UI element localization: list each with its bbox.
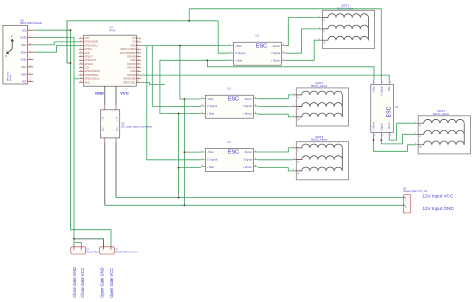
pin left 1 3.3V of U7 [79,37,84,39]
svg-text:SDA: SDA [21,50,27,54]
svg-text:2: 2 [137,37,138,39]
pin left 7 GPIO4 of U7 [79,48,84,50]
pin 2 O Signal of U2 [229,52,233,54]
coil winding V of MOT1 [322,25,368,29]
pin bottom 5 Signal of U1 [380,132,382,137]
pin 2 V of MOT1 [319,28,323,30]
header H1 Close Gate (Header Male 2.54_1x2) [71,247,109,254]
svg-text:3.3V: 3.3V [84,37,89,40]
svg-text:GPIO22: GPIO22 [84,63,93,66]
svg-text:U4: U4 [227,140,231,144]
svg-text:GPIO25: GPIO25 [127,74,136,77]
svg-text:GPIO4: GPIO4 [84,48,92,51]
svg-text:O Signal: O Signal [207,104,218,108]
pin 1 U of MOT3 [293,147,297,149]
svg-text:U: U [297,96,299,99]
pin 3 W of MOT1 [319,39,323,41]
wire U4 motor- to MOT3 pin1 [258,148,293,152]
svg-text:8: 8 [137,48,138,50]
IC U7 Pi-IO GPIO header [79,26,141,87]
svg-text:U: U [297,149,299,152]
svg-text:GPIO3/SCL1: GPIO3/SCL1 [84,44,99,47]
svg-text:GPIO8/CE0: GPIO8/CE0 [123,78,136,81]
svg-text:GPIO23: GPIO23 [127,63,136,66]
junction U3 +Batt [178,113,180,115]
svg-text:24: 24 [137,77,139,79]
pin right 18 GPIO24 of U7 [136,67,141,69]
svg-text:O Signal: O Signal [207,158,218,162]
svg-text:5: 5 [80,44,81,46]
pin 2 O Signal of U4 [201,158,205,160]
svg-text:VCC: VCC [120,91,129,96]
svg-text:BLDC_Motor: BLDC_Motor [311,84,327,88]
svg-text:- Motor: - Motor [243,150,252,154]
svg-text:GND: GND [20,36,26,40]
wire Pi GND left stub [74,78,79,80]
star point join of MOT2 [341,95,343,117]
svg-text:19: 19 [80,70,82,72]
svg-text:+ Motor: + Motor [372,122,376,131]
pin right 4 5V of U7 [136,41,141,43]
pin right 6 GND of U7 [136,45,141,47]
pin left 15 GPIO22 of U7 [79,63,84,65]
pin 5 I Signal of U3 [253,105,257,107]
pin 6 + Motor of U3 [253,112,257,114]
wire U3 signal from Pi [152,46,201,107]
pin 3 W of MOT4 [415,144,419,146]
op-amp substitute: ESC U2 [229,34,286,66]
pin 3 + Batt of U4 [201,166,205,168]
svg-text:10: 10 [137,52,139,54]
junction upper rail [188,20,190,22]
svg-text:GPIO27/17: GPIO27/17 [84,59,97,62]
pin 1 U of MOT2 [293,94,297,96]
svg-text:I Signal: I Signal [243,158,252,162]
svg-text:15: 15 [80,63,82,65]
svg-text:ESC: ESC [228,96,239,102]
svg-text:+ Motor: + Motor [243,165,252,169]
coil winding U of MOT1 [322,14,368,18]
wire MPU +5V to VCC bus [33,29,70,31]
pin 2 V of MOT3 [293,159,297,161]
svg-text:+5V: +5V [21,28,26,32]
svg-text:GPIO17: GPIO17 [84,55,93,58]
pin 3 SCL of U8 [28,44,34,46]
pin 2 V of MOT2 [293,106,297,108]
svg-text:- Motor: - Motor [387,122,391,130]
wire MPU GND to GND bus [33,37,74,39]
wire U1 pin4 to MOT4 pin3 [374,137,415,151]
svg-text:ESC: ESC [387,106,393,117]
svg-text:SCL: SCL [21,43,27,47]
svg-text:GND: GND [130,70,136,73]
wire buck 5V+ to Pi VCC label [115,86,117,105]
svg-text:3: 3 [80,41,81,43]
svg-text:Open Gate GND: Open Gate GND [99,267,104,297]
wire H1 pin2 branch [74,243,82,247]
junction rail A [178,197,180,199]
svg-text:AD0: AD0 [21,72,27,76]
wire rail B 12V GND [105,204,404,206]
pin right 8 GPIO14/TXD0 of U7 [136,48,141,50]
wire U2 signal to MOT1 pin2 [286,29,319,53]
svg-text:Close Gate GND: Close Gate GND [72,267,77,298]
junction U2 +Batt [207,59,209,61]
pin 2 O Signal of U3 [201,105,205,107]
svg-text:9: 9 [80,52,81,54]
svg-text:- 5V: - 5V [103,116,105,121]
pin left 11 GPIO17 of U7 [79,56,84,58]
svg-text:12V +: 12V + [116,125,118,131]
svg-text:ESC: ESC [228,150,239,156]
pin left 21 GPIO9/MISO of U7 [79,74,84,76]
wire upper signal rail [189,8,381,10]
svg-text:BLDC_Motor: BLDC_Motor [433,112,449,116]
wire rail B drop [104,142,106,205]
svg-text:16: 16 [137,63,139,65]
pin right 24 GPIO8/CE0 of U7 [136,78,141,80]
motor MOT2 BLDC_Motor [293,81,349,126]
svg-text:GPIO11/SCLK: GPIO11/SCLK [84,78,100,81]
star point join of MOT1 [367,18,369,41]
svg-text:Close Gate VCC: Close Gate VCC [80,267,85,297]
wire Pi GPIO25 to U1 signal pin3 [141,75,389,80]
buck converter U5 DC_step_down_converter [101,105,153,142]
wire rail A 12V VCC [116,197,403,199]
wire -Batt vertical long [183,99,185,205]
junction rail B [184,204,186,206]
pin 6 XCL of U8 [28,66,34,68]
svg-text:11: 11 [80,55,82,57]
wire U4 motor+ to MOT3 pin3 [258,168,293,171]
pin top 3 - Batt of U1 [388,80,390,85]
pin 3 W of MOT3 [293,170,297,172]
svg-text:Y: Y [11,34,13,38]
wire upper rail drop to top rail [188,9,190,21]
svg-text:- Batt: - Batt [387,86,391,92]
pin 3 12V- of U5 [104,138,106,142]
pin 1 - Batt of U2 [229,45,233,47]
op-amp substitute: ESC U4 [201,140,258,172]
pin 5 I Signal of U2 [282,52,286,54]
pin 5 I Signal of U4 [253,158,257,160]
svg-text:GPIO7/CE1: GPIO7/CE1 [123,81,136,84]
wire U1 pin5 to MOT4 pin2 [381,134,414,144]
wire GND bus vertical [73,38,75,239]
svg-text:18: 18 [137,66,139,68]
wire U2 +Batt rail [160,59,229,61]
pin 1 - Batt of U3 [201,98,205,100]
svg-text:14: 14 [137,59,139,61]
wire U2 motor+ to MOT1 pin3 [286,40,319,60]
pin 4 - Motor of U3 [253,98,257,100]
wire buck 5V- to Pi GND label [104,86,106,105]
svg-text:ESC: ESC [256,43,267,49]
svg-text:25: 25 [80,81,82,83]
svg-text:- Batt: - Batt [207,150,214,154]
pin 2 V of MOT4 [415,133,419,135]
pin top 2 0 Signal of U1 [380,80,382,85]
pin 4 SDA of U8 [28,51,34,53]
pin 6 + Motor of U2 [282,59,286,61]
pin 1 - Batt of U4 [201,151,205,153]
wire U2 signal drop [218,21,229,53]
svg-text:+ Batt: + Batt [372,86,376,93]
pin right 12 GPIO18 of U7 [136,56,141,58]
svg-text:DC_step_down_converter: DC_step_down_converter [121,124,152,128]
header H2 Open Gate (Header Male 2.54_1x2) [100,247,139,254]
svg-text:Signal: Signal [379,123,383,131]
svg-text:17: 17 [80,66,82,68]
pin bottom 6 - Motor of U1 [388,132,390,137]
svg-text:GND: GND [130,59,136,62]
svg-text:13: 13 [80,59,82,61]
svg-text:22: 22 [137,74,139,76]
svg-text:GPIO18: GPIO18 [127,55,136,58]
pin 4 12V+ of U5 [115,138,117,142]
svg-text:Module: Module [10,74,12,81]
svg-text:4: 4 [137,41,138,43]
pin left 23 GPIO11/SCLK of U7 [79,78,84,80]
svg-text:+ 5V: + 5V [116,116,118,121]
wire rail A drop [115,142,117,197]
svg-text:GND: GND [84,52,90,55]
wire U3 motor- to MOT2 pin1 [258,95,293,99]
coil winding W of MOT2 [296,113,342,117]
junction U4 +Batt [178,167,180,169]
pin right 16 GPIO23 of U7 [136,63,141,65]
coil winding W of MOT4 [418,141,464,145]
junction U3 -Batt [184,98,186,100]
pin top 1 + Batt of U1 [373,80,375,85]
pin left 9 GND of U7 [79,52,84,54]
pin 8 INT of U8 [28,81,34,83]
svg-text:3.3V: 3.3V [84,67,89,70]
wire Pi row13 gnd stub [141,83,165,85]
coil winding V of MOT2 [296,103,342,107]
svg-text:7: 7 [80,48,81,50]
svg-text:20: 20 [137,70,139,72]
svg-text:U1: U1 [395,105,399,109]
svg-text:BLDC_Motor: BLDC_Motor [337,6,353,10]
pin right 14 GND of U7 [136,59,141,61]
wire +Batt rail to U1 pin1 [207,67,374,80]
svg-text:U2: U2 [256,34,260,38]
wire U1 signal vertical [380,9,382,80]
op-amp substitute: ESC U3 [201,87,258,119]
wire top rail left drop [67,21,71,63]
pin 3 W of MOT2 [293,116,297,118]
coil winding U of MOT4 [418,119,464,123]
wire U3 motor+ to MOT2 pin3 [258,114,293,117]
wire U2 motor- to MOT1 pin1 [286,18,319,46]
svg-text:1: 1 [80,37,81,39]
pin 3 + Batt of U2 [229,59,233,61]
svg-text:GPIO15/RXD0: GPIO15/RXD0 [120,52,136,55]
svg-text:+ Motor: + Motor [243,112,252,116]
svg-text:12V -: 12V - [103,126,105,131]
svg-text:GND: GND [130,44,136,47]
wire top rail to U2 signal [67,20,218,22]
svg-text:GPIO9/MISO: GPIO9/MISO [84,74,98,77]
wire U3 +Batt branch [160,113,201,115]
IC U8 MPU-6050 Module [3,18,43,84]
wire U4 signal to MOT3 pin2 [258,159,293,161]
svg-text:0 Signal: 0 Signal [379,86,383,96]
coil winding U of MOT3 [296,144,342,148]
svg-text:- Batt: - Batt [207,97,214,101]
svg-text:XDA: XDA [21,58,27,62]
svg-text:BLDC_Motor: BLDC_Motor [311,138,327,142]
wire U4 -Batt branch [184,151,201,153]
coil winding V of MOT3 [296,156,342,160]
wire GND to H2 pin1 [74,239,104,247]
svg-text:U: U [419,125,421,128]
svg-text:+ Batt: + Batt [207,165,214,169]
svg-text:Open Gate VCC: Open Gate VCC [109,268,114,298]
svg-text:GPIO2/SDA1: GPIO2/SDA1 [84,41,99,44]
svg-text:GND: GND [84,81,90,84]
svg-text:GND: GND [95,91,104,96]
svg-text:26: 26 [137,81,139,83]
pin left 25 GND of U7 [79,81,84,83]
junction top-left bus [70,62,72,64]
svg-text:6: 6 [137,44,138,46]
svg-text:12: 12 [137,55,139,57]
svg-text:INT: INT [22,80,27,84]
pin left 13 GPIO27/17 of U7 [79,59,84,61]
pin 5 XDA of U8 [28,59,34,61]
pin right 26 GPIO7/CE1 of U7 [136,81,141,83]
svg-text:X: X [5,54,7,58]
coil winding U of MOT2 [296,91,342,95]
wire U2 +Batt left drop [159,60,161,113]
svg-text:23: 23 [80,77,82,79]
wire U4 signal from Pi [147,46,201,160]
pin 7 AD0 of U8 [28,73,34,75]
svg-text:- Motor: - Motor [271,44,280,48]
svg-text:+ Batt: + Batt [235,59,242,63]
junction U4 -Batt [184,151,186,153]
junction VCC bus / MPU 5V [70,29,72,31]
pin 2 5V+ of U5 [115,105,117,110]
pin 1 5V- of U5 [104,105,106,110]
svg-text:- Batt: - Batt [235,44,242,48]
junction GND bus H1 [73,238,75,240]
pin 1 U of MOT4 [415,122,419,124]
pin 3 + Batt of U3 [201,112,205,114]
wire U4 +Batt branch [179,167,202,169]
wire MPU SCL to Pi [33,42,79,45]
wire H1 pin1 drop [73,239,75,247]
svg-text:5V: 5V [133,37,136,40]
star point join of MOT3 [341,148,343,171]
pin right 20 GND of U7 [136,70,141,72]
wire VCC bus vertical to open gate [71,30,112,247]
wire U1 pin6 to MOT4 pin1 [389,123,415,140]
wire U3 signal to MOT2 pin2 [258,106,293,108]
star point join of MOT4 [463,123,465,145]
svg-text:Header Male 2.54_1x2: Header Male 2.54_1x2 [115,251,138,254]
svg-text:+ Motor: + Motor [271,59,280,63]
junction U1-MOT4 bend b [380,139,382,141]
svg-text:5V: 5V [133,41,136,44]
svg-text:12V Input GND: 12V Input GND [423,206,455,211]
wire MPU SDA to Pi [33,46,79,53]
pin 1 +5V of U8 [28,29,34,31]
pin right 10 GPIO15/RXD0 of U7 [136,52,141,54]
svg-text:I Signal: I Signal [243,104,252,108]
svg-text:Pi-IO: Pi-IO [110,29,116,33]
transistor substitute: ESC U1 (rotated) [371,80,399,137]
svg-text:GPIO14/TXD0: GPIO14/TXD0 [120,48,136,51]
pin bottom 4 + Motor of U1 [373,132,375,137]
motor MOT4 BLDC_Motor [415,109,471,154]
pin left 17 3.3V of U7 [79,67,84,69]
svg-text:MPU-6050 Module: MPU-6050 Module [20,21,42,25]
wire -Batt vertical to U3 [180,46,201,99]
wire +12V vertical to rail A [178,114,180,198]
pin right 2 5V of U7 [136,37,141,39]
pin 6 + Motor of U4 [253,166,257,168]
pin left 19 GPIO10/MOSI of U7 [79,70,84,72]
pin 2 GND of U8 [28,37,34,39]
pin 1 U of MOT1 [319,17,323,19]
junction U2 -Batt [179,45,181,47]
svg-text:XCL: XCL [21,65,27,69]
header H3 12V input (Header Male 2.54_1x2) [403,187,428,213]
pin left 3 GPIO2/SDA1 of U7 [79,41,84,43]
pin left 5 GPIO3/SCL1 of U7 [79,45,84,47]
coil winding W of MOT1 [322,36,368,40]
svg-text:21: 21 [80,74,82,76]
wire batt vertical mid [206,60,208,67]
svg-text:U3: U3 [227,87,231,91]
svg-text:GPIO10/MOSI: GPIO10/MOSI [84,70,100,73]
svg-text:+ Batt: + Batt [207,112,214,116]
pin right 22 GPIO25 of U7 [136,74,141,76]
motor MOT1 BLDC_Motor [319,4,375,49]
motor MOT3 BLDC_Motor [293,135,349,180]
svg-text:GPIO24: GPIO24 [127,67,136,70]
wire Pi GND to U2 -Batt [141,45,229,47]
coil winding W of MOT3 [296,167,342,171]
pin 4 - Motor of U2 [282,45,286,47]
svg-text:- Motor: - Motor [243,97,252,101]
svg-text:O Signal: O Signal [235,51,246,55]
svg-text:12V Input VCC: 12V Input VCC [423,193,454,198]
junction U1-MOT4 bend a [373,139,375,141]
svg-text:I Signal: I Signal [271,51,280,55]
svg-text:U: U [323,19,325,22]
coil winding V of MOT4 [418,130,464,134]
pin 4 - Motor of U4 [253,151,257,153]
